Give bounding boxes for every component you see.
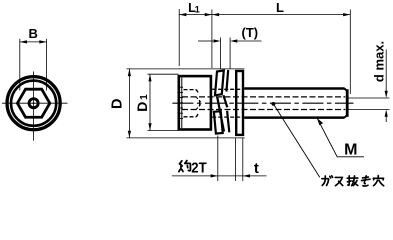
gas vent label (hand-drawn kanji strokes) (322, 176, 384, 186)
head chamfer circle (11, 81, 56, 126)
B extension line left (19, 39, 21, 91)
svg-text:B: B (29, 26, 38, 41)
main center line (172, 102, 353, 104)
spring washer split diagonal short (223, 95, 227, 107)
svg-text:(T): (T) (241, 25, 258, 40)
hex socket hidden line lower (184, 113, 199, 117)
gas vent leader dot (272, 102, 276, 106)
hex socket hidden line upper (184, 90, 199, 94)
D1 dimension line (149, 74, 151, 130)
D1 extension line bottom (148, 130, 179, 132)
d max extension line lower (349, 109, 390, 111)
svg-text:1: 1 (139, 94, 150, 100)
svg-text:1: 1 (195, 4, 200, 14)
spring washer split diagonal long (217, 97, 224, 132)
svg-text:M: M (344, 142, 357, 159)
spring washer upper back edge (226, 70, 228, 92)
gas vent hole hidden line upper (182, 96, 345, 98)
head outer circle (7, 77, 60, 130)
flat washer left extension line (234, 138, 236, 182)
M leader line (317, 118, 364, 157)
spring washer upper section (215, 70, 224, 95)
(T) right arrow with tail (237, 40, 261, 42)
L dimension line (212, 14, 350, 16)
gas vent hole hidden line lower (182, 109, 345, 111)
vent hole center dot (33, 102, 35, 104)
L extension line right (349, 10, 351, 95)
D extension line top (127, 68, 245, 70)
D1 extension line top (148, 73, 179, 75)
L1 dimension line (179, 14, 212, 16)
約2T label: 約 kanji + 2T (179, 161, 191, 172)
spring washer lower back edge (227, 111, 229, 133)
socket cone upper (196, 97, 201, 103)
L1/L shared extension line (211, 10, 213, 69)
katakana SU (335, 177, 342, 185)
d max extension line upper (349, 97, 390, 99)
svg-text:D: D (109, 99, 125, 109)
gas vent leader line (273, 104, 319, 177)
shaft top edge (244, 87, 344, 90)
shaft end face (346, 89, 349, 117)
hiragana KI (362, 176, 370, 186)
spring washer left extension line (217, 136, 219, 182)
shaft end chamfer top (344, 89, 347, 92)
2T dimension line with arrow (172, 175, 243, 177)
shank hidden line upper (212, 88, 244, 90)
center line vertical (33, 72, 35, 141)
flat washer right extension line (242, 138, 244, 182)
D extension line bottom (127, 137, 245, 139)
d max. label (372, 41, 387, 82)
shaft bottom edge (244, 116, 344, 119)
knurl ticks (177, 87, 183, 118)
head body (179, 76, 211, 129)
flat washer (236, 71, 243, 135)
D1 label (134, 94, 150, 112)
cone tip tick (199, 100, 201, 106)
center line horizontal (2, 102, 68, 104)
svg-text:t: t (254, 160, 259, 177)
hex socket (17, 89, 49, 117)
gas vent hole ring (29, 99, 38, 108)
d max dimension arrows (385, 50, 387, 92)
(T) left arrow with tail (198, 40, 213, 42)
kanji NUKU (347, 176, 358, 186)
(T) extension lines (220, 38, 222, 70)
shank hidden line lower (212, 116, 244, 118)
shaft end chamfer bottom (344, 115, 347, 118)
B dimension line (20, 41, 47, 43)
svg-text:d max.: d max. (372, 41, 387, 82)
B extension line right (46, 39, 48, 91)
svg-text:D: D (134, 102, 150, 112)
head face inner line (181, 77, 183, 128)
D dimension line (128, 69, 130, 138)
katakana GA (322, 176, 333, 186)
t dimension tail (243, 175, 267, 177)
L1 extension line (head left face) (178, 9, 180, 66)
kanji ANA (373, 176, 383, 186)
svg-text:2T: 2T (191, 159, 206, 176)
socket cone lower (196, 104, 201, 110)
svg-text:L: L (276, 0, 284, 15)
spring washer lower section (214, 111, 223, 133)
